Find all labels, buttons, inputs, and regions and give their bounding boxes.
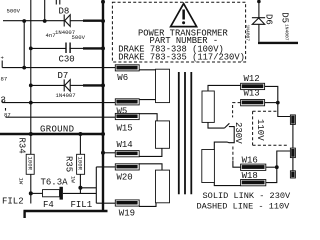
svg-text:1N4007: 1N4007: [245, 25, 251, 42]
svg-text:T6.3A: T6.3A: [41, 178, 69, 188]
svg-text:D6: D6: [264, 14, 274, 25]
svg-text:W16: W16: [242, 156, 258, 166]
svg-text:87: 87: [1, 76, 8, 83]
svg-text:W14: W14: [117, 140, 133, 150]
svg-text:W19: W19: [119, 209, 135, 219]
svg-text:W13: W13: [244, 89, 260, 99]
svg-text:W20: W20: [117, 173, 133, 183]
svg-text:3: 3: [1, 96, 6, 106]
svg-text:FIL1: FIL1: [71, 200, 93, 210]
svg-text:500V: 500V: [72, 34, 86, 41]
svg-text:D5: D5: [280, 12, 290, 23]
svg-text:DASHED LINE - 110V: DASHED LINE - 110V: [197, 201, 291, 211]
svg-text:W5: W5: [117, 106, 128, 116]
svg-text:230V: 230V: [233, 122, 243, 144]
svg-text:W12: W12: [244, 74, 260, 84]
svg-text:100R: 100R: [77, 157, 84, 171]
svg-text:F4: F4: [43, 200, 54, 210]
svg-text:1W: 1W: [18, 178, 25, 185]
svg-text:DRAKE 783-335 (117/230V): DRAKE 783-335 (117/230V): [118, 52, 245, 62]
svg-text:1W: 1W: [70, 176, 77, 183]
svg-text:1N4007: 1N4007: [56, 92, 76, 99]
svg-text:500V: 500V: [7, 7, 21, 14]
svg-text:100R: 100R: [26, 157, 33, 171]
svg-text:FIL2: FIL2: [2, 196, 24, 206]
svg-text:1N4007: 1N4007: [284, 24, 290, 41]
svg-text:W15: W15: [117, 123, 133, 133]
svg-text:C30: C30: [59, 55, 75, 65]
svg-text:110V: 110V: [255, 119, 265, 141]
svg-text:R35: R35: [64, 156, 74, 172]
svg-text:SOLID LINK - 230V: SOLID LINK - 230V: [203, 191, 292, 201]
svg-text:D7: D7: [58, 71, 69, 81]
svg-text:W6: W6: [117, 73, 128, 83]
svg-text:GROUND: GROUND: [40, 125, 74, 135]
svg-text:D8: D8: [59, 7, 70, 17]
svg-text:87: 87: [4, 112, 11, 119]
svg-text:W18: W18: [242, 171, 258, 181]
svg-text:R34: R34: [17, 138, 27, 154]
svg-text:+: +: [1, 55, 5, 62]
